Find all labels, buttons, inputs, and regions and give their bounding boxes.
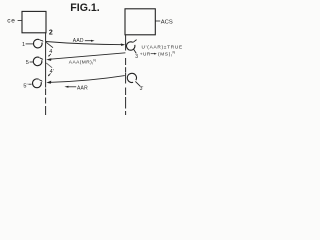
lifeline (ACS) solid at 3' bbox=[125, 73, 127, 84]
leader tail 3' bbox=[135, 81, 140, 86]
arrow under 4 bbox=[48, 54, 51, 57]
message AAA wire bbox=[49, 53, 126, 60]
svg-text:U'(AAR)±TRUE: U'(AAR)±TRUE bbox=[142, 45, 183, 50]
svg-text:ACS: ACS bbox=[161, 19, 173, 25]
lifeline 2 (CE) dashed bbox=[45, 89, 47, 116]
label AAR with left arrow bbox=[64, 85, 88, 91]
lifeline (ACS) solid bbox=[125, 35, 127, 51]
label AAD bbox=[73, 38, 95, 44]
label ACS bbox=[155, 19, 173, 25]
message AAD wire bbox=[46, 42, 124, 45]
arrow under 4' bbox=[48, 73, 51, 76]
lifeline (ACS) dashed bottom bbox=[125, 88, 127, 116]
op circle 1 bbox=[33, 39, 43, 48]
text +UR (MS)iN bbox=[140, 51, 176, 58]
label 5' bbox=[23, 83, 31, 89]
box CE bbox=[22, 11, 46, 32]
label 1 bbox=[22, 42, 33, 48]
svg-text:5: 5 bbox=[26, 60, 29, 66]
svg-text:ce: ce bbox=[7, 18, 15, 25]
leader tail 3 bbox=[134, 49, 137, 53]
svg-text:AAD: AAD bbox=[73, 38, 84, 44]
svg-text:+UR: +UR bbox=[140, 51, 151, 56]
leader diagonal at 4 bbox=[46, 42, 53, 47]
message AAR wire bbox=[48, 76, 125, 83]
svg-text:2: 2 bbox=[49, 29, 53, 36]
message AAD arrowhead bbox=[121, 43, 125, 46]
label 5 bbox=[26, 60, 33, 66]
op circle 3' bbox=[127, 73, 136, 82]
lifeline (ACS) dashed middle bbox=[125, 58, 127, 73]
svg-text:AAR: AAR bbox=[77, 85, 88, 91]
label ce bbox=[7, 18, 22, 25]
svg-text:FIG.1.: FIG.1. bbox=[70, 2, 99, 14]
svg-text:3: 3 bbox=[135, 54, 138, 60]
op circle 3 bbox=[127, 40, 137, 51]
svg-text:1: 1 bbox=[22, 42, 25, 48]
lifeline 2 (CE) solid bbox=[45, 33, 47, 88]
leader diagonal at 4' bbox=[46, 63, 52, 68]
op circle 5' bbox=[32, 79, 42, 88]
svg-text:5': 5' bbox=[23, 83, 27, 89]
op circle 5 bbox=[33, 57, 43, 66]
svg-text:3': 3' bbox=[140, 86, 144, 92]
box ACS bbox=[125, 9, 155, 35]
message AAA arrowhead bbox=[46, 58, 51, 61]
message AAR arrowhead bbox=[46, 81, 51, 84]
